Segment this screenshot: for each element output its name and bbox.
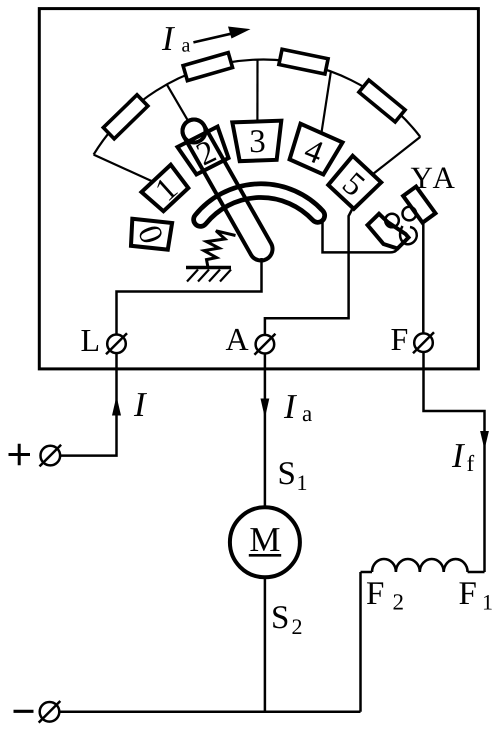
arrow I (up) bbox=[112, 396, 121, 416]
svg-text:M: M bbox=[249, 520, 280, 559]
label + bbox=[9, 444, 31, 466]
stud label 3 bbox=[249, 124, 266, 160]
motor M bbox=[230, 507, 300, 577]
stud label 4 bbox=[299, 132, 328, 172]
YA coil lead curl bbox=[400, 226, 417, 244]
contact stud 2 bbox=[177, 127, 232, 177]
wire: outer resistor arc bbox=[94, 60, 421, 155]
resistor R2 (starting resistance segment) bbox=[183, 53, 232, 81]
svg-text:L: L bbox=[81, 322, 101, 358]
bottom rail to - source bbox=[60, 711, 361, 714]
arrow If (down) bbox=[480, 431, 489, 450]
svg-text:3: 3 bbox=[249, 124, 266, 160]
arrow Ia direction bbox=[193, 31, 242, 42]
wire: A down to motor bbox=[264, 354, 267, 508]
svg-text:F: F bbox=[459, 576, 477, 612]
svg-text:1: 1 bbox=[297, 470, 308, 495]
wire: motor to bottom rail bbox=[264, 577, 267, 712]
svg-text:f: f bbox=[467, 451, 475, 476]
resistor R1 (starting resistance segment) bbox=[103, 95, 148, 139]
ground hatch bbox=[209, 270, 220, 282]
stud label 0 bbox=[130, 221, 169, 248]
contact bar (copper sector swept by lever) bbox=[201, 191, 318, 220]
svg-text:S: S bbox=[278, 456, 296, 492]
wire: arc end to stud 1 bbox=[94, 155, 157, 184]
contact stud 0 bbox=[129, 219, 172, 250]
terminal F bbox=[414, 333, 433, 352]
svg-text:a: a bbox=[182, 35, 191, 57]
svg-text:2: 2 bbox=[393, 590, 405, 615]
wire: L down to + source bbox=[61, 353, 117, 456]
svg-text:F: F bbox=[366, 576, 384, 612]
arrow Ia (down) bbox=[261, 399, 270, 419]
contact stud 3 bbox=[232, 121, 282, 162]
terminal A bbox=[256, 335, 275, 354]
wire: contact bar to YA coil bbox=[323, 221, 399, 253]
YA coil loops bbox=[385, 214, 399, 228]
wire: radial tap to stud 3 bbox=[256, 60, 258, 122]
stud label 5 bbox=[335, 166, 371, 204]
resistor R3 (starting resistance segment) bbox=[279, 49, 328, 74]
contact stud 1 bbox=[141, 165, 190, 213]
wire: F down, over to field winding bbox=[424, 352, 485, 572]
electromagnet YA armature bbox=[403, 187, 435, 223]
wire: radial tap to stud 4 bbox=[322, 72, 331, 133]
terminal L bbox=[107, 335, 126, 354]
stud label 1 bbox=[148, 171, 184, 209]
svg-text:F: F bbox=[391, 321, 409, 357]
lever (starter handle) bbox=[182, 119, 272, 260]
wire: YA to terminal F bbox=[422, 220, 425, 334]
svg-text:A: A bbox=[226, 321, 249, 357]
ground hatch bbox=[187, 270, 198, 282]
wire: stud 5 to terminal A bbox=[265, 210, 352, 335]
- terminal bbox=[40, 702, 60, 722]
ground hatch bbox=[198, 270, 209, 282]
svg-text:S: S bbox=[271, 600, 289, 636]
contact stud 4 bbox=[285, 124, 342, 177]
stud label 2 bbox=[191, 134, 222, 174]
contact stud 5 bbox=[327, 156, 381, 210]
+ terminal bbox=[41, 446, 61, 466]
svg-text:YA: YA bbox=[411, 160, 458, 195]
field winding F1-F2 bbox=[372, 559, 468, 572]
wire: radial tap to lever knob (stud 2) bbox=[167, 84, 188, 121]
wire: lever pivot to terminal L bbox=[117, 258, 262, 334]
wire: arc end to stud 5 bbox=[373, 137, 420, 174]
enclosure box of starter bbox=[39, 9, 478, 369]
label minus bbox=[14, 710, 34, 713]
lever knob bbox=[183, 120, 206, 143]
svg-text:a: a bbox=[302, 401, 312, 426]
svg-text:2: 2 bbox=[292, 614, 303, 639]
ground hatch bbox=[220, 270, 231, 282]
spring (return spring on lever) bbox=[204, 231, 236, 268]
electromagnet YA core bbox=[368, 214, 409, 249]
svg-text:1: 1 bbox=[482, 590, 493, 615]
resistor R4 (starting resistance segment) bbox=[359, 80, 405, 122]
ground symbol bbox=[186, 266, 231, 269]
